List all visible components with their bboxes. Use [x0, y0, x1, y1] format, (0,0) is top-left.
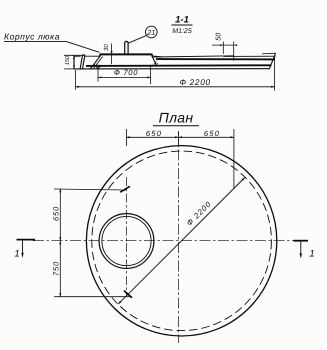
section mark left — [17, 239, 36, 241]
roof slab: left edge — [73, 56, 75, 69]
cover skirt left inner line — [96, 57, 102, 65]
neck left wall (cut) — [80, 55, 85, 69]
dim 30 (cover height) — [111, 44, 113, 65]
dim Ф700 — [97, 67, 99, 82]
svg-text:1-1: 1-1 — [175, 15, 189, 26]
roof plate second line (thick) — [156, 58, 275, 60]
svg-text:1: 1 — [14, 249, 19, 260]
svg-text:650: 650 — [51, 206, 60, 221]
plan title — [159, 109, 194, 125]
svg-text:650: 650 — [146, 129, 162, 138]
svg-text:План: План — [159, 109, 194, 125]
manhole circle outer — [99, 214, 154, 269]
hatching left wall — [92, 64, 102, 69]
leader from balloon to pin — [128, 35, 146, 43]
roof slab: top line left stub — [74, 55, 81, 57]
roof plate lap: lower sheet top — [223, 55, 275, 57]
svg-text:21: 21 — [146, 28, 155, 37]
svg-text:150: 150 — [65, 55, 71, 65]
tick at manhole centreline / extension crossing — [120, 186, 130, 192]
vertical centre line of tank — [178, 131, 180, 343]
cover flat top — [100, 53, 153, 55]
cover skirt left — [91, 55, 101, 68]
roof right edge (slanted) — [269, 53, 275, 69]
dim Ф2200 (section) — [75, 70, 77, 90]
handle pin (pos.21) — [125, 41, 128, 54]
dim 50 (plate lap) — [212, 44, 235, 46]
diagonal diameter Ф2200 — [118, 178, 245, 305]
label "Корпус люка" — [4, 32, 60, 42]
manhole circle inner — [102, 216, 151, 265]
svg-text:Корпус люка: Корпус люка — [4, 32, 60, 42]
horizontal centre line (section trace) — [33, 240, 295, 242]
section mark right — [294, 240, 309, 242]
roof lower thick line — [86, 64, 272, 67]
callout balloon 21 — [146, 26, 158, 38]
cover rim right (slanted) — [152, 55, 162, 58]
svg-text:Ф 700: Ф 700 — [114, 68, 138, 77]
inner wall circle (dashed) — [92, 151, 272, 331]
roof plate top thin line (right of hatch) — [154, 56, 234, 57]
left dim 650 / 750 — [54, 189, 126, 190]
tank shell circle (outer) — [86, 146, 276, 336]
cover skirt right — [152, 55, 157, 65]
svg-text:1: 1 — [309, 249, 314, 260]
hatching right wall — [154, 62, 158, 67]
dim 150 (left, neck height) — [64, 54, 84, 56]
svg-text:30: 30 — [103, 44, 110, 51]
cover rim left — [85, 55, 100, 57]
svg-text:750: 750 — [51, 261, 60, 276]
vertical centre line of manhole — [125, 177, 127, 296]
svg-text:50: 50 — [215, 33, 222, 41]
section title 1-1 — [172, 15, 192, 36]
leader from label to hatch body — [66, 41, 99, 52]
svg-text:М1:25: М1:25 — [172, 28, 192, 35]
top dim 650+650 — [125, 129, 127, 146]
svg-text:Ф 2200: Ф 2200 — [180, 78, 211, 87]
roof bottom line — [74, 68, 269, 70]
svg-text:650: 650 — [204, 129, 220, 138]
